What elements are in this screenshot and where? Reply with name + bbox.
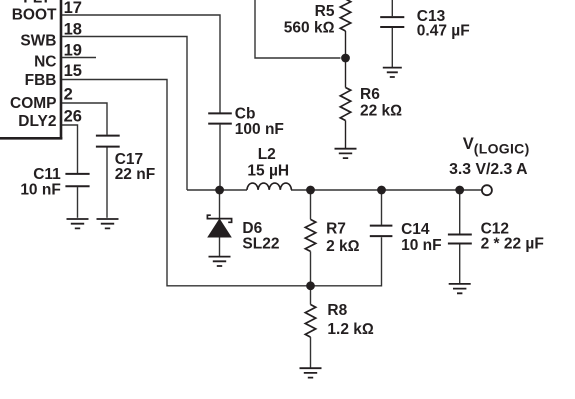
ground under C17 xyxy=(97,219,119,228)
wire top feed down to R5/R6 node xyxy=(255,0,341,58)
wire Cb bottom lead to switch node xyxy=(219,125,221,190)
wire R6 bottom lead to ground xyxy=(345,121,347,149)
terminal V(LOGIC) output xyxy=(482,185,492,195)
resistor R8 xyxy=(305,305,315,338)
svg-text:17: 17 xyxy=(64,0,82,17)
inductor L2 xyxy=(247,183,291,190)
svg-text:100 nF: 100 nF xyxy=(235,121,284,138)
junction R5/R6 node xyxy=(341,54,350,63)
svg-text:3.3 V/2.3 A: 3.3 V/2.3 A xyxy=(449,161,527,178)
svg-text:2 kΩ: 2 kΩ xyxy=(326,238,360,255)
svg-text:COMP: COMP xyxy=(10,95,57,112)
capacitor Cb plates xyxy=(208,113,232,123)
svg-text:SWB: SWB xyxy=(20,33,56,50)
diode D6 schottky xyxy=(207,215,231,237)
resistor R7 xyxy=(305,219,315,251)
svg-text:2: 2 xyxy=(64,86,73,104)
svg-text:19: 19 xyxy=(64,42,82,60)
wire C17 bottom lead to ground xyxy=(106,147,108,217)
svg-text:SL22: SL22 xyxy=(242,236,279,253)
wire pin 26 DLY2 to C11 xyxy=(62,125,78,173)
junction at C12 xyxy=(455,186,464,195)
ground under C13 xyxy=(383,68,402,77)
resistor R6 xyxy=(340,88,350,121)
junction L2 output at R7 xyxy=(306,186,315,195)
junction switch node at Cb/D6 xyxy=(215,186,224,195)
svg-text:C11: C11 xyxy=(33,166,61,183)
ground under C12 xyxy=(449,284,471,293)
ground under R6 xyxy=(335,149,357,158)
wire C12 bottom lead to ground xyxy=(459,244,461,283)
IC U1 box bottom edge xyxy=(0,137,62,140)
wire C14 top lead xyxy=(381,190,383,225)
wire R8 bottom lead to ground xyxy=(310,337,312,368)
svg-text:C14: C14 xyxy=(401,221,430,238)
wire R7 top lead xyxy=(310,190,312,219)
ground under D6 xyxy=(209,257,231,266)
svg-text:R5: R5 xyxy=(315,3,335,20)
wire D6 anode lead to ground xyxy=(219,237,221,256)
wire R5 bottom lead xyxy=(345,31,347,88)
wire output rail left segment xyxy=(187,189,247,191)
svg-text:15 µH: 15 µH xyxy=(247,162,289,179)
svg-text:10 nF: 10 nF xyxy=(401,237,441,254)
wire R8 top lead xyxy=(310,286,312,305)
svg-text:22 nF: 22 nF xyxy=(115,166,155,183)
svg-text:V: V xyxy=(463,135,474,153)
wire pin 17 BOOT to Cb xyxy=(62,15,220,113)
svg-text:22 kΩ: 22 kΩ xyxy=(360,103,402,120)
svg-text:D6: D6 xyxy=(242,220,262,237)
svg-text:R8: R8 xyxy=(327,302,347,319)
wire D6 cathode lead xyxy=(219,190,221,218)
IC U1 box right edge xyxy=(60,0,63,140)
wire pin 15 FBB down to feedback node xyxy=(62,80,382,286)
svg-text:Cb: Cb xyxy=(235,105,256,122)
svg-text:10 nF: 10 nF xyxy=(20,182,60,199)
junction at C14 xyxy=(377,186,386,195)
ground under R8 xyxy=(300,368,322,377)
ground under C11 xyxy=(67,219,89,228)
wire pin 2 COMP to C17 xyxy=(62,103,107,135)
wire C11 bottom lead to ground xyxy=(77,187,79,218)
svg-text:(LOGIC): (LOGIC) xyxy=(474,140,530,156)
capacitor C14 plates xyxy=(370,226,393,237)
wire output rail right segment to terminal xyxy=(291,189,482,191)
svg-text:18: 18 xyxy=(64,21,82,39)
svg-text:BOOT: BOOT xyxy=(12,6,57,23)
svg-text:L2: L2 xyxy=(258,146,276,163)
capacitor C17 plates xyxy=(96,136,120,147)
wire C13 top lead xyxy=(391,0,393,16)
svg-text:2 * 22 µF: 2 * 22 µF xyxy=(481,235,544,252)
capacitor C11 plates xyxy=(65,174,89,186)
wire pin 18 SWB down to switch node xyxy=(62,37,187,191)
capacitor C12 plates xyxy=(448,235,472,244)
svg-text:R7: R7 xyxy=(326,221,346,238)
capacitor C13 plates xyxy=(380,17,404,27)
junction feedback node R7/R8 xyxy=(306,281,315,290)
svg-text:NC: NC xyxy=(34,54,56,71)
svg-text:0.47 µF: 0.47 µF xyxy=(417,22,470,39)
svg-text:26: 26 xyxy=(64,108,82,126)
svg-text:DLY2: DLY2 xyxy=(18,113,56,130)
svg-text:560 kΩ: 560 kΩ xyxy=(284,19,335,36)
wire R7 bottom lead xyxy=(310,251,312,285)
svg-text:1.2 kΩ: 1.2 kΩ xyxy=(327,321,373,338)
wire C13 bottom lead to ground xyxy=(391,28,393,67)
svg-text:15: 15 xyxy=(64,62,82,80)
wire C12 top lead xyxy=(459,190,461,234)
svg-text:R6: R6 xyxy=(360,86,380,103)
resistor R5 xyxy=(340,0,350,31)
wire pin 19 NC stub xyxy=(62,57,96,59)
svg-text:FBB: FBB xyxy=(25,72,57,89)
